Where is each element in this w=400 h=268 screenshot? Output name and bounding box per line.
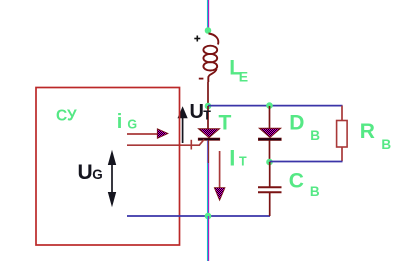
wire: thyristor cathode lead down [207,140,209,163]
node: junction above inductor [205,27,212,34]
svg-text:D: D [289,112,304,135]
thyristor T triangle [199,129,220,138]
arrow IT (thyristor current) [214,151,225,200]
diode DB triangle [259,128,280,137]
capacitor CB plates [258,186,282,188]
wire: bottom horizontal blue (cathode return) [127,215,270,217]
svg-text:U: U [190,101,204,123]
svg-text:E: E [239,69,248,85]
node: bottom junction [205,213,212,220]
thyristor gate tick [190,140,192,150]
arrow UG double headed (gate voltage) [108,150,116,207]
diode DB anode lead [269,106,271,128]
diode DB cathode bar [258,138,281,141]
svg-text:B: B [310,128,320,143]
svg-text:T: T [219,112,232,135]
svg-text:C: C [289,169,304,192]
wire: inductor bottom lead [207,82,209,106]
arrow iG (gate current) with wire [127,129,168,139]
svg-text:I: I [229,146,235,171]
arrow UT (voltage across thyristor) [178,106,188,143]
svg-text:i: i [117,111,123,133]
control unit box CY [36,88,180,246]
wire: bottom vertical stub (cyan-magenta dithered centerline) [207,216,209,261]
inductor LE coil [203,34,218,83]
diode DB cathode lead [269,141,271,163]
capacitor CB bottom lead [269,193,271,216]
node: junction above diode DB [266,102,273,109]
node: junction below diode [266,159,273,166]
polarity plus sign of LE [194,36,200,42]
svg-text:B: B [381,137,391,152]
svg-text:B: B [310,184,320,199]
svg-text:U: U [78,161,93,184]
svg-text:СУ: СУ [56,108,77,125]
resistor RB body [337,121,348,148]
svg-text:G: G [127,118,137,132]
wire: top horizontal blue bus to RB [208,105,343,107]
capacitor CB top lead [269,162,271,187]
polarity minus sign of LE [199,78,204,80]
thyristor gate lead [127,140,204,146]
thyristor T cathode bar [198,138,220,140]
node: anode junction [205,103,212,110]
wire: blue link diode to RB [270,161,343,163]
wire: RB top lead [341,106,343,121]
wire: top vertical feeder (cyan-magenta dithered centerline) [207,0,209,31]
svg-text:T: T [239,154,247,168]
svg-text:G: G [92,167,103,182]
wire: RB bottom lead [341,147,343,161]
svg-text:R: R [360,120,375,143]
svg-text:T: T [203,109,211,123]
wire: thyristor anode lead [207,106,209,129]
